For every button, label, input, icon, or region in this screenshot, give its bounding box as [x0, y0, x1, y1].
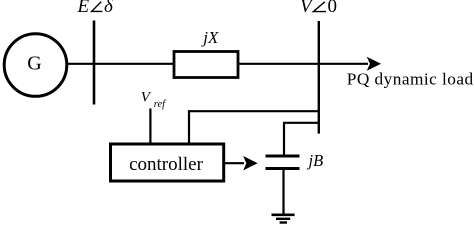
capacitor jB [266, 156, 300, 169]
svg-text:δ: δ [104, 0, 114, 17]
svg-text:E: E [77, 0, 90, 17]
controller U1 [111, 144, 224, 181]
svg-text:0: 0 [328, 0, 338, 17]
svg-text:controller: controller [129, 154, 204, 175]
ground [272, 215, 295, 223]
load arrow [319, 57, 381, 71]
wire bus to capacitor [284, 123, 319, 155]
bus node E [93, 21, 96, 105]
generator G [4, 34, 67, 97]
label V angle 0 [300, 0, 337, 17]
wire capacitor to ground [282, 170, 284, 214]
svg-text:jX: jX [201, 28, 219, 47]
svg-text:G: G [27, 53, 41, 75]
reactance jX [174, 52, 238, 78]
wire Vref input [149, 109, 151, 145]
wire jX to bus V [239, 63, 319, 65]
wire generator to jX [66, 63, 175, 65]
label E angle delta [77, 0, 115, 17]
svg-text:jB: jB [307, 151, 324, 170]
label Vref [141, 89, 167, 110]
svg-text:V: V [141, 89, 152, 105]
svg-text:V: V [300, 0, 314, 17]
controller output arrow [225, 156, 258, 170]
wire bus to controller sense input [189, 111, 319, 144]
svg-text:ref: ref [154, 99, 167, 110]
svg-text:PQ dynamic load: PQ dynamic load [347, 70, 474, 89]
bus node V [318, 21, 320, 134]
